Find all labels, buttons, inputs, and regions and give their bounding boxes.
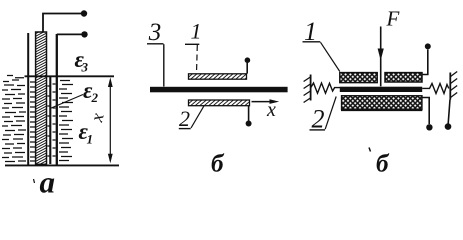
leader for eps2 (50, 95, 83, 109)
vessel bottom line (5, 164, 119, 166)
upper right block (cross-hatched) (385, 73, 422, 82)
terminal dot lower (246, 121, 252, 127)
leader from 1 to upper left block (321, 42, 340, 71)
svg-text:3: 3 (148, 19, 162, 46)
left anchor wall (310, 75, 312, 101)
svg-text:2: 2 (312, 105, 325, 134)
force arrow (380, 27, 382, 87)
fixed middle bar (150, 87, 288, 93)
upper left block (cross-hatched) (340, 73, 377, 83)
liquid hatching left zone (2, 76, 26, 162)
displacement arrow x (252, 101, 272, 103)
dashed leader from 1 to upper plate (196, 45, 199, 73)
liquid hatching between electrodes (30, 82, 56, 161)
svg-text:x: x (266, 99, 276, 121)
terminal dot top (425, 43, 431, 49)
svg-text:2: 2 (91, 90, 99, 105)
wire from lower block to terminal (422, 98, 429, 125)
liquid hatching right zone (59, 81, 73, 161)
inner layer line (eps2 film) (49, 77, 51, 164)
wire from rod top to terminal (43, 14, 81, 33)
left spring (311, 83, 340, 93)
svg-text:F: F (386, 7, 400, 31)
right spring (422, 84, 449, 94)
svg-text:3: 3 (81, 60, 89, 75)
liquid surface line (25, 75, 115, 77)
wire from right anchor to terminal (448, 100, 450, 124)
svg-text:б: б (211, 151, 225, 178)
terminal dot upper (245, 57, 251, 63)
lower block (cross-hatched) (342, 96, 423, 110)
right plate (56, 34, 58, 165)
svg-text:1: 1 (87, 132, 94, 147)
svg-text:1: 1 (191, 19, 202, 44)
terminal dot bottom right (445, 123, 452, 130)
inner rod electrode (hatched) (36, 32, 47, 164)
svg-text:а: а (40, 165, 56, 200)
movable middle bar (340, 87, 422, 92)
wire upper plate to terminal (246, 63, 248, 74)
upper plate (hatched) (189, 74, 247, 79)
leader from 3 to bar (163, 44, 165, 86)
leader from 2 to lower plate (191, 106, 204, 128)
terminal dot bottom left (426, 124, 432, 130)
wire lower plate to terminal (248, 106, 250, 121)
lower plate (hatched) (189, 100, 250, 106)
terminal dot 2 (81, 31, 87, 37)
dimension line x (109, 80, 111, 161)
wire from right plate to terminal (57, 33, 82, 35)
wire from upper right block to terminal (422, 50, 428, 75)
terminal dot 1 (81, 10, 87, 16)
svg-text:2: 2 (179, 106, 190, 131)
right anchor wall (449, 73, 451, 100)
leader from 2 to lower block (325, 97, 336, 130)
svg-text:б: б (376, 151, 390, 178)
left plate (27, 33, 29, 165)
